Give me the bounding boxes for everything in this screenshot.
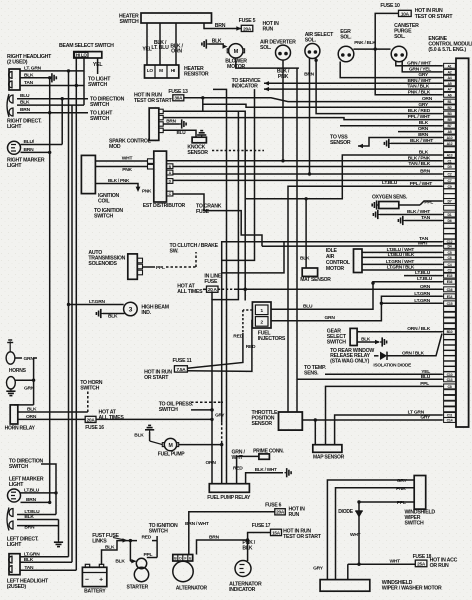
idle air control motor M2 [326, 248, 362, 273]
to rear window release relay isolation diode [330, 334, 442, 368]
wire RED to ignition switch [142, 523, 179, 541]
left marker light [8, 477, 44, 503]
svg-text:BLK: BLK [27, 407, 37, 413]
svg-text:ORN: ORN [422, 96, 433, 102]
svg-text:FUSE: FUSE [196, 209, 210, 215]
wire PPL ignition to starter [144, 541, 158, 558]
fuse 13 [168, 89, 188, 101]
svg-text:LT.GRN: LT.GRN [414, 298, 431, 304]
right marker light [7, 141, 45, 169]
fuse 18 hot in acc or run [413, 554, 458, 569]
to light switch label [90, 110, 113, 122]
wire canister purge left pin to ECM A1 GRN WHT [396, 60, 442, 66]
svg-text:−: − [85, 577, 89, 584]
svg-text:GRY: GRY [418, 72, 429, 78]
wire ECM E15 LT BLU stub [404, 270, 442, 276]
wire BRN right direction to light switch [17, 107, 88, 114]
svg-text:ORN: ORN [171, 49, 182, 55]
svg-text:RED: RED [142, 535, 152, 541]
svg-text:A13: A13 [447, 154, 453, 158]
svg-text:(STA WAG ONLY): (STA WAG ONLY) [330, 358, 369, 364]
svg-text:OR START: OR START [144, 375, 169, 381]
svg-text:ORN: ORN [26, 414, 37, 420]
EST distributor U2 [143, 151, 186, 209]
svg-text:SW.: SW. [170, 248, 180, 254]
alternator indicator [229, 561, 262, 594]
wire IAC to ECM C4 [362, 259, 442, 265]
svg-text:OR RUN: OR RUN [430, 563, 449, 569]
svg-text:TEST OR START: TEST OR START [415, 14, 454, 20]
wire spark module pin1 to injector trunk [163, 111, 247, 300]
svg-text:BLK / WHT: BLK / WHT [407, 209, 430, 215]
high beam indicator [67, 299, 169, 320]
wire service branch down [222, 89, 255, 260]
MAP sensor [313, 445, 345, 461]
wire BLU to ECM C13 [297, 374, 442, 380]
svg-text:LT.BLU: LT.BLU [417, 276, 433, 282]
svg-text:SOLENOIDS: SOLENOIDS [88, 261, 117, 267]
ground right headlight BLK [50, 73, 57, 82]
svg-text:PPL / WHT: PPL / WHT [410, 181, 433, 187]
svg-text:ORN / BLK: ORN / BLK [402, 350, 425, 355]
svg-text:HORN RELAY: HORN RELAY [5, 426, 36, 432]
svg-text:GRN: GRN [325, 315, 336, 321]
svg-text:SWITCH: SWITCH [90, 102, 109, 108]
svg-text:RUN: RUN [289, 512, 300, 518]
windshield wiper switch [405, 476, 436, 527]
hot in run label [263, 21, 280, 33]
wire BRN right marker [21, 147, 52, 154]
horn 2 [6, 377, 35, 396]
svg-text:C1: C1 [448, 159, 452, 163]
svg-text:C4: C4 [448, 263, 452, 267]
svg-text:LT.BLU / BLK: LT.BLU / BLK [388, 252, 415, 257]
wire ECM B7 BLK stub [340, 120, 442, 126]
svg-text:GRY: GRY [313, 566, 324, 572]
blower motor M1 [225, 44, 247, 70]
wire PPL wiper switch to diode [357, 500, 414, 506]
wire LT BLU left marker [21, 487, 57, 493]
svg-text:PPL: PPL [156, 265, 165, 271]
to direction switch label [90, 96, 125, 108]
svg-text:MOD: MOD [109, 144, 121, 150]
left direction light [7, 508, 39, 548]
wire PNK wiper switch to motor [336, 486, 415, 580]
svg-text:BRN: BRN [166, 119, 176, 124]
wire blower common trunk to TPS [296, 68, 298, 412]
wire BRN WHT alternator to fuse 6 [185, 512, 275, 555]
wire fuel pump to relay trunk [179, 443, 224, 446]
wire BLK right direction [17, 100, 84, 106]
svg-text:B1: B1 [448, 100, 452, 104]
svg-text:30A: 30A [174, 96, 183, 101]
svg-text:SWITCH: SWITCH [9, 464, 28, 470]
wire LT BLU left direction [17, 509, 56, 515]
svg-text:FUSE 16: FUSE 16 [85, 425, 104, 431]
svg-text:D1: D1 [448, 213, 452, 217]
svg-text:SENSOR: SENSOR [252, 421, 273, 427]
wire BRN spark module ground [163, 119, 186, 129]
wire heater switch to fuse 5 [204, 23, 241, 31]
svg-text:TAN / BLK: TAN / BLK [408, 161, 430, 167]
svg-text:BLK / PNK: BLK / PNK [108, 178, 130, 183]
svg-text:INDICATOR: INDICATOR [229, 587, 256, 593]
svg-text:SENSOR: SENSOR [330, 140, 351, 146]
svg-text:D5: D5 [448, 165, 452, 169]
wire distributor B to ECM D5 TAN BLK [173, 161, 442, 167]
svg-text:BRN: BRN [24, 147, 35, 153]
svg-text:M: M [159, 68, 163, 73]
to VSS sensor [330, 132, 442, 148]
wire LT GRN right headlight [20, 65, 84, 72]
svg-text:BLK: BLK [24, 514, 34, 520]
svg-text:BLK: BLK [300, 256, 310, 262]
to service indicator [232, 78, 442, 92]
wire BLU right direction [17, 93, 88, 100]
svg-text:TAN / BLK: TAN / BLK [407, 84, 429, 90]
svg-text:SWITCH: SWITCH [149, 529, 168, 535]
wire B2 GRY branch [203, 102, 442, 108]
svg-text:BEAM SELECT SWITCH: BEAM SELECT SWITCH [59, 43, 114, 49]
svg-text:LT. GRN: LT. GRN [24, 65, 42, 71]
svg-text:BRN: BRN [418, 132, 429, 138]
wire BLU right marker [21, 139, 63, 145]
wire ORN horn relay to fuse 16 [18, 414, 85, 420]
svg-text:A7: A7 [448, 88, 452, 92]
svg-text:HI: HI [171, 68, 175, 73]
spark control module U1 [109, 108, 163, 150]
svg-text:A4: A4 [448, 76, 452, 80]
svg-text:SWITCH: SWITCH [159, 407, 178, 413]
wire left bus LT GRN trunk [68, 71, 70, 557]
svg-text:A10: A10 [447, 136, 453, 140]
svg-text:B7: B7 [448, 124, 452, 128]
svg-text:ORN: ORN [206, 460, 217, 466]
wire center trunk to ORN relay feed [206, 111, 239, 483]
svg-text:RED: RED [246, 344, 256, 350]
svg-text:PPL: PPL [424, 200, 433, 206]
svg-text:TEST OR START: TEST OR START [283, 534, 322, 540]
svg-text:WHT: WHT [418, 240, 429, 246]
svg-text:SOL.: SOL. [394, 34, 406, 40]
svg-text:LT.GRN: LT.GRN [89, 299, 106, 305]
svg-text:GRN / WHT: GRN / WHT [407, 60, 431, 66]
svg-text:10A: 10A [401, 11, 410, 16]
svg-text:IND.: IND. [141, 310, 151, 316]
svg-text:E15: E15 [447, 274, 453, 278]
EGR solenoid L3 [338, 29, 354, 62]
svg-text:BLK: BLK [134, 433, 144, 439]
svg-text:FUSE 17: FUSE 17 [252, 523, 271, 529]
svg-text:PPL: PPL [420, 381, 429, 387]
wire fuse 16 ORN to fuel pump relay trunk [96, 418, 212, 420]
wire left bus ground trunk [49, 78, 51, 503]
svg-text:ORN / BLK: ORN / BLK [407, 326, 430, 332]
svg-text:M: M [168, 443, 172, 449]
heater switch SW1 [119, 13, 211, 25]
svg-text:TAN: TAN [24, 80, 34, 86]
wire injector BLU to ECM E16 [271, 276, 442, 310]
svg-text:BLU: BLU [177, 130, 187, 135]
svg-text:SWITCH: SWITCH [120, 19, 139, 25]
svg-text:BLK / PNK: BLK / PNK [408, 155, 431, 161]
svg-text:BRN: BRN [215, 23, 226, 29]
svg-text:LIGHT: LIGHT [9, 482, 24, 488]
gear select switch [327, 328, 357, 345]
to temp sens [304, 365, 442, 377]
svg-text:PPL: PPL [144, 552, 153, 558]
svg-text:FUSE 5: FUSE 5 [239, 18, 256, 24]
wire ECM C11 LT GRN [335, 410, 442, 445]
left headlight [7, 554, 49, 590]
svg-text:OXYGEN SENS.: OXYGEN SENS. [372, 195, 408, 201]
svg-text:C11: C11 [447, 414, 453, 418]
svg-text:LO: LO [147, 68, 154, 73]
svg-text:GRN / YEL: GRN / YEL [409, 66, 431, 72]
svg-text:BLK: BLK [115, 559, 125, 565]
svg-text:PNK: PNK [142, 189, 152, 194]
wire heater switch to HI [170, 23, 183, 65]
svg-text:B2: B2 [448, 106, 452, 110]
svg-text:COIL: COIL [98, 199, 110, 205]
wire ECM C9 PPL WHT trunk [288, 181, 442, 412]
ground ECM D6 TAN [398, 215, 442, 225]
svg-text:WHT: WHT [390, 559, 401, 565]
svg-text:RED: RED [233, 466, 243, 472]
svg-text:BLK: BLK [242, 545, 252, 551]
svg-text:C8: C8 [448, 385, 452, 389]
wire GRY trunk dashed [221, 423, 223, 484]
svg-text:LINKS: LINKS [92, 538, 107, 544]
svg-text:SWITCH: SWITCH [80, 386, 99, 392]
svg-text:SWITCH: SWITCH [405, 521, 424, 527]
auto transmission solenoids [88, 250, 142, 279]
svg-text:BRN: BRN [420, 169, 431, 175]
svg-text:LT.GRN: LT.GRN [414, 291, 431, 297]
diode wiper D1 [338, 502, 363, 566]
svg-text:(5.0 & 5.7L ENG.): (5.0 & 5.7L ENG.) [428, 47, 466, 53]
wire WHT coil to distributor [95, 156, 147, 162]
svg-text:LT.BLU: LT.BLU [24, 487, 40, 493]
horn 1 [6, 340, 34, 374]
fuse 11 [144, 358, 192, 381]
wire C12 branch [222, 242, 284, 273]
svg-text:BRN: BRN [209, 535, 220, 541]
svg-text:ALTERNATOR: ALTERNATOR [176, 586, 208, 592]
horn relay K1 [5, 405, 36, 432]
svg-text:25A: 25A [417, 562, 426, 567]
wire left bus TAN trunk [75, 58, 77, 571]
svg-text:C9: C9 [448, 185, 452, 189]
svg-text:7.5A: 7.5A [176, 367, 186, 372]
svg-text:BATTERY: BATTERY [84, 589, 106, 595]
dashed annotation knock area [212, 150, 264, 152]
wire ORN BLK gear select to ECM B10 [357, 326, 442, 332]
svg-text:ALL TIMES: ALL TIMES [177, 289, 203, 295]
svg-text:BLK: BLK [212, 39, 222, 45]
wire BRN left marker [21, 497, 52, 504]
ground ECM D1 BLK WHT [373, 209, 442, 219]
svg-text:LIGHT: LIGHT [7, 542, 22, 548]
svg-text:M: M [234, 49, 239, 55]
wire ECM D4 WHT [262, 240, 442, 246]
wire PNK BLK fuse 17 to alternator indicator [242, 533, 270, 562]
wire BLK left headlight [20, 557, 72, 563]
wire air select right pin to ECM B3 BLK RED [314, 58, 442, 114]
svg-text:BLK / WHT: BLK / WHT [410, 138, 433, 144]
wire left bus direction trunk [41, 464, 58, 515]
wire heater switch to M [151, 23, 169, 65]
svg-text:BLU/: BLU/ [24, 139, 35, 145]
fuse 6 hot in run [265, 503, 305, 519]
svg-text:YEL: YEL [93, 62, 103, 68]
svg-text:B5: B5 [448, 118, 452, 122]
svg-text:LT.GRN / WHT: LT.GRN / WHT [386, 259, 415, 264]
svg-text:+: + [99, 577, 103, 584]
svg-text:(2USED): (2USED) [7, 584, 27, 590]
svg-text:PNK / BLK: PNK / BLK [408, 89, 431, 95]
svg-text:SOL.: SOL. [305, 37, 317, 43]
svg-text:MAP SENSOR: MAP SENSOR [313, 454, 345, 460]
svg-text:WHT: WHT [350, 532, 361, 538]
svg-text:SENS.: SENS. [304, 371, 319, 377]
prime connector [233, 448, 285, 483]
svg-text:SOL.: SOL. [260, 45, 272, 51]
air select solenoid L2 [305, 32, 334, 59]
svg-text:BLU: BLU [20, 93, 30, 99]
svg-text:20A: 20A [87, 417, 96, 422]
wire RED injector 1 [187, 310, 252, 368]
wire MAP to GRY [314, 420, 316, 445]
wire spark module pin2 to ECM B5 PPL WHT [163, 114, 442, 120]
wire injector GRN to ECM E14 C15 [271, 291, 442, 321]
alternator G1 [173, 555, 208, 592]
svg-text:BRN / WHT: BRN / WHT [185, 521, 209, 527]
svg-text:SOL.: SOL. [340, 34, 352, 40]
svg-text:SWITCH: SWITCH [90, 116, 109, 122]
svg-text:BRN: BRN [26, 497, 37, 503]
svg-text:20A: 20A [243, 26, 252, 31]
svg-text:C6: C6 [448, 256, 452, 260]
heater resistor R1 [145, 65, 209, 78]
to horn switch label [80, 380, 103, 392]
svg-text:WIPER / WASHER MOTOR: WIPER / WASHER MOTOR [382, 586, 442, 592]
svg-text:C2: C2 [448, 173, 452, 177]
svg-text:SENSOR: SENSOR [187, 150, 208, 156]
svg-text:PNK / BLK: PNK / BLK [354, 40, 376, 45]
wire inline fuse to ECM C16 ORN [234, 284, 442, 291]
svg-text:FUSE 10: FUSE 10 [380, 3, 400, 9]
wire ECM A8 ORN stub [398, 126, 442, 132]
svg-text:BRN: BRN [24, 525, 35, 531]
wire fuse 10 PNK BLK to EGR and canister [354, 13, 399, 50]
svg-text:BLU: BLU [303, 304, 313, 310]
wire BLK left direction [17, 514, 59, 520]
svg-text:A2: A2 [448, 70, 452, 74]
svg-text:ORN: ORN [418, 126, 429, 132]
wire PNK coil to distributor [95, 167, 147, 173]
svg-text:C5: C5 [448, 251, 452, 255]
svg-text:A12: A12 [447, 142, 453, 146]
svg-text:BLK: BLK [419, 120, 429, 126]
svg-text:C15: C15 [447, 302, 453, 306]
svg-text:C3: C3 [448, 269, 452, 273]
svg-text:TAN: TAN [24, 565, 34, 571]
wire BLK gear select to ground [357, 337, 387, 347]
svg-text:PNK: PNK [278, 74, 289, 80]
svg-text:C10: C10 [447, 373, 453, 377]
svg-text:MOTOR: MOTOR [326, 266, 344, 272]
wire fuse 13 to ECM B1 ORN [184, 96, 442, 102]
wire GRY wiper switch to motor [313, 478, 414, 580]
svg-text:A5: A5 [448, 82, 452, 86]
wire GRN WHT trunk to fuel pump relay [213, 89, 245, 483]
svg-text:A1: A1 [448, 64, 452, 68]
svg-text:D6: D6 [448, 219, 452, 223]
svg-text:SWITCH: SWITCH [94, 214, 113, 220]
svg-text:ISOLATION DIODE: ISOLATION DIODE [373, 363, 411, 368]
svg-text:LIGHT: LIGHT [7, 163, 22, 169]
svg-text:FUEL PUMP: FUEL PUMP [158, 452, 185, 458]
ground left direction [54, 520, 63, 547]
wire PPL auto trans to clutch brake switch [143, 243, 219, 271]
svg-text:LIGHT: LIGHT [7, 124, 22, 130]
wire BLK PNK coil to ignition switch [94, 178, 152, 220]
svg-text:BLK: BLK [20, 100, 30, 106]
wire GRN horns to relay [14, 358, 37, 405]
svg-text:C14: C14 [447, 419, 453, 423]
svg-text:MAT SENSOR: MAT SENSOR [300, 277, 331, 283]
to direction switch label bottom [9, 459, 44, 471]
wire heater switch to LO [142, 23, 152, 65]
svg-text:INDICATOR: INDICATOR [232, 84, 259, 90]
svg-text:LT.BLU: LT.BLU [382, 180, 398, 186]
svg-text:LT.BLU: LT.BLU [24, 509, 40, 515]
wire IAC to ECM C3 [362, 265, 442, 271]
svg-text:WHT: WHT [122, 156, 133, 162]
wire LT GRN left headlight [20, 551, 69, 557]
svg-text:C13: C13 [447, 378, 453, 382]
wire EGR to ECM A4 GRY [340, 62, 442, 79]
svg-text:PPL: PPL [397, 500, 406, 506]
svg-text:BLU: BLU [421, 374, 431, 380]
svg-text:INJECTORS: INJECTORS [258, 336, 286, 342]
wire fuse 10 junction to ECM A6 PNK BLK [375, 49, 442, 95]
ignition coil T1 [81, 155, 119, 204]
svg-text:LT.BLU: LT.BLU [415, 270, 431, 276]
canister purge solenoid L4 [391, 23, 419, 62]
fuse links label [92, 533, 127, 544]
wire canister purge right pin to ECM A2 GRN YEL [402, 62, 442, 73]
hot in run test or start label [134, 93, 173, 105]
wire TAN right headlight [20, 80, 84, 87]
svg-text:GRY: GRY [418, 102, 429, 108]
svg-text:B3: B3 [448, 112, 452, 116]
svg-text:20A: 20A [276, 510, 285, 515]
svg-text:BRN / WHT: BRN / WHT [407, 78, 431, 84]
svg-text:BLK: BLK [419, 150, 429, 156]
svg-text:FUSE 11: FUSE 11 [173, 358, 192, 364]
wire distributor C to crank fuse [173, 194, 262, 246]
beam select switch SW2 [59, 43, 114, 58]
svg-text:FUEL PUMP RELAY: FUEL PUMP RELAY [207, 495, 251, 501]
wire ECM C12 TAN trunk [215, 236, 442, 423]
fuel injectors [252, 302, 286, 342]
wire YEL to light switch stub [88, 58, 111, 88]
svg-text:FUSE: FUSE [204, 279, 218, 285]
wire RED injector 2 [187, 321, 256, 372]
wire BRN left direction [17, 525, 59, 531]
